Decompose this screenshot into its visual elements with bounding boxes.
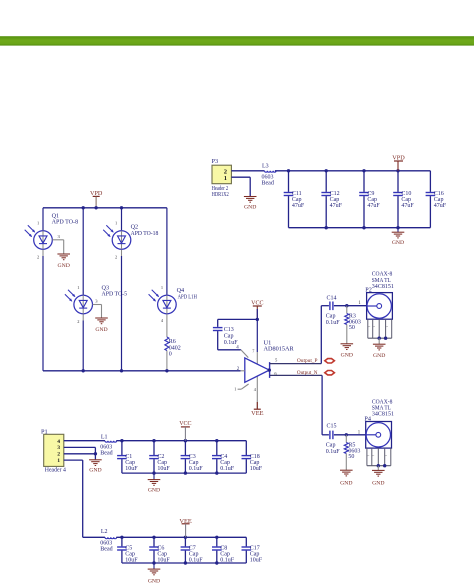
svg-text:2: 2 <box>57 452 60 458</box>
svg-text:47uF: 47uF <box>434 203 447 209</box>
svg-text:34C8151: 34C8151 <box>372 412 394 418</box>
svg-text:GND: GND <box>89 468 101 474</box>
capacitor C9 <box>359 171 380 228</box>
wire P3 pin1 to ground <box>231 177 250 196</box>
capacitor C18 <box>242 441 263 473</box>
net label Output_N <box>297 370 318 376</box>
svg-text:GND: GND <box>58 263 70 269</box>
svg-text:2: 2 <box>115 255 117 260</box>
svg-text:P3: P3 <box>212 158 219 165</box>
resistor R6 <box>165 337 181 358</box>
svg-text:APD TO-18: APD TO-18 <box>131 230 159 237</box>
pin1 stub <box>234 384 248 392</box>
svg-text:GND: GND <box>95 327 107 333</box>
wire pin2 stub <box>237 367 245 372</box>
port Output_P <box>325 359 335 363</box>
svg-text:GND: GND <box>341 353 353 359</box>
P2 shield pins <box>368 319 392 340</box>
svg-text:10uF: 10uF <box>157 466 170 472</box>
capacitor C12 <box>321 171 342 228</box>
wire C13 loop top <box>218 319 258 327</box>
wire Q1 column <box>42 208 44 371</box>
svg-text:47uF: 47uF <box>292 203 305 209</box>
ground at P1 <box>89 460 102 474</box>
svg-text:10uF: 10uF <box>250 466 263 472</box>
capacitor C2 <box>149 441 170 473</box>
svg-text:Header 4: Header 4 <box>45 468 66 474</box>
svg-text:2: 2 <box>37 255 39 260</box>
coax connector P2 <box>365 272 394 320</box>
power port VPD (left) <box>90 190 103 208</box>
svg-text:GND: GND <box>244 204 256 210</box>
svg-text:APD L1H: APD L1H <box>178 293 198 300</box>
svg-text:L3: L3 <box>262 164 269 170</box>
capacitor C1 <box>117 441 138 473</box>
svg-text:Cap: Cap <box>224 333 234 339</box>
photodiode Q2 <box>103 221 158 260</box>
svg-text:4: 4 <box>57 439 60 445</box>
svg-text:⌐: ⌐ <box>368 325 370 329</box>
junction dots on photodiode bus <box>82 206 124 209</box>
svg-text:VCC: VCC <box>251 299 263 306</box>
svg-text:VEE: VEE <box>251 410 263 417</box>
wire C14 to P2 pin1 <box>334 301 367 306</box>
svg-text:Cap: Cap <box>326 314 336 320</box>
svg-text:COAX-8: COAX-8 <box>372 399 393 405</box>
photodiode bus <box>43 207 167 209</box>
capacitor C11 <box>284 171 305 228</box>
ground below VCC bus <box>148 473 161 494</box>
junction dots on VCC rail <box>120 439 218 442</box>
svg-text:1: 1 <box>234 387 236 392</box>
power port VPD (top right) <box>392 154 405 171</box>
resistor R5 <box>344 435 360 470</box>
coax connector P4 <box>364 399 394 448</box>
capacitor C15 <box>326 424 341 455</box>
svg-text:1: 1 <box>57 458 60 464</box>
input wire to op-amp <box>43 370 241 372</box>
svg-text:C13: C13 <box>224 327 234 333</box>
wire Q2 column <box>121 208 123 371</box>
header green bar <box>0 36 474 45</box>
svg-text:⌐: ⌐ <box>386 325 388 329</box>
wire output N <box>270 371 323 376</box>
svg-text:0402: 0402 <box>169 345 181 351</box>
svg-text:VPD: VPD <box>90 190 103 197</box>
svg-text:HDR1X2: HDR1X2 <box>212 192 229 198</box>
capacitor C8 <box>212 537 235 563</box>
svg-text:1: 1 <box>224 175 227 182</box>
ground at Q1 <box>57 254 70 269</box>
svg-text:1: 1 <box>37 221 39 226</box>
capacitor C13 <box>213 327 238 346</box>
capacitor C16 <box>426 171 447 228</box>
junction dots on VEE rail <box>120 536 218 539</box>
svg-text:L1: L1 <box>101 435 108 441</box>
svg-text:SMA TL: SMA TL <box>372 278 391 284</box>
svg-text:Cap: Cap <box>326 443 336 449</box>
svg-text:GND: GND <box>373 353 385 359</box>
junction dots on VPD bus <box>287 169 400 172</box>
wire P1 pin3 pin2 to ground <box>64 447 97 459</box>
wire Q4 column <box>166 208 168 371</box>
svg-text:0: 0 <box>169 352 172 358</box>
op-amp U1 AD8015AR <box>245 340 295 393</box>
capacitor C17 <box>242 537 263 563</box>
svg-text:L2: L2 <box>101 529 108 535</box>
port Output_N <box>325 371 335 375</box>
ground below cap bank <box>392 228 405 246</box>
power port VCC (op-amp) <box>251 299 263 319</box>
ground at Q3 <box>95 318 108 333</box>
svg-text:47uF: 47uF <box>401 203 414 209</box>
junction dots on VEE bottom bus <box>152 561 218 564</box>
wire C15 to P4 pin1 <box>334 430 366 435</box>
wire C13 to pin4 <box>218 331 249 358</box>
svg-text:Bead: Bead <box>100 450 112 456</box>
capacitor C4 <box>212 441 235 473</box>
svg-text:47uF: 47uF <box>367 203 380 209</box>
connector P3 (Header 2) <box>212 158 232 198</box>
power port VEE (op-amp) <box>251 402 263 417</box>
capacitor C5 <box>117 537 138 563</box>
svg-text:0.1uF: 0.1uF <box>189 466 204 472</box>
svg-text:APD TO-5: APD TO-5 <box>102 291 128 298</box>
junction dots on VCC bottom bus <box>152 471 218 474</box>
VCC rail <box>116 440 246 442</box>
wire L3 to VPD bus <box>275 170 431 172</box>
VEE rail bottom bus <box>122 562 246 564</box>
op-amp output bar <box>268 362 271 378</box>
bottom bus of cap bank <box>289 227 431 229</box>
wire output P <box>270 358 322 364</box>
svg-text:GND: GND <box>392 240 404 246</box>
ground below R5 <box>340 470 353 486</box>
svg-text:APD TO-8: APD TO-8 <box>52 219 79 226</box>
svg-text:Bead: Bead <box>100 547 112 553</box>
wire P1 pin4 to L1 <box>64 440 105 442</box>
svg-text:COAX-8: COAX-8 <box>372 272 393 278</box>
svg-text:Bead: Bead <box>262 180 274 186</box>
svg-text:34C8151: 34C8151 <box>372 284 394 290</box>
svg-text:R6: R6 <box>169 339 176 345</box>
svg-text:10uF: 10uF <box>250 557 263 563</box>
svg-text:C14: C14 <box>327 296 337 302</box>
svg-text:C15: C15 <box>327 424 337 430</box>
capacitor C14 <box>326 296 341 326</box>
VEE rail <box>116 536 246 538</box>
svg-text:0.1uF: 0.1uF <box>326 449 341 455</box>
power port VEE (rail) <box>179 518 191 537</box>
svg-text:⌐: ⌐ <box>385 454 387 458</box>
svg-text:GND: GND <box>148 488 160 494</box>
junction dots on bottom bus <box>325 226 400 229</box>
ground below P3 <box>244 197 257 211</box>
junction dot C13 tap <box>256 318 259 321</box>
ferrite bead L1 <box>100 435 116 457</box>
svg-text:VCC: VCC <box>179 420 191 427</box>
svg-text:AD8015AR: AD8015AR <box>264 346 295 353</box>
svg-text:3: 3 <box>57 445 60 451</box>
connector P1 (Header 4) <box>41 428 66 473</box>
svg-text:GND: GND <box>372 481 384 487</box>
svg-text:0.1uF: 0.1uF <box>326 320 341 326</box>
svg-text:47uF: 47uF <box>330 203 343 209</box>
ferrite bead L3 <box>262 164 277 187</box>
capacitor C10 <box>393 171 414 228</box>
svg-text:⌐: ⌐ <box>373 325 375 329</box>
svg-text:1: 1 <box>115 221 117 226</box>
wire OutputP to C14 <box>321 306 329 364</box>
junction dots on input wire <box>82 369 169 372</box>
svg-text:GND: GND <box>148 578 160 583</box>
capacitor C7 <box>181 537 204 563</box>
svg-text:Output_P: Output_P <box>297 358 318 364</box>
junction dot R5 <box>345 433 348 436</box>
wire OutputN to C15 <box>322 375 329 434</box>
wire Q3 pin3 to ground <box>93 299 102 318</box>
photodiode Q1 <box>25 212 78 259</box>
wire VCC to op-amp <box>256 309 258 409</box>
svg-text:0603: 0603 <box>100 540 112 546</box>
ground below R3 <box>341 344 354 359</box>
resistor R3 <box>345 306 361 344</box>
photodiode Q4 <box>149 285 198 323</box>
ferrite bead L2 <box>100 529 116 553</box>
VCC rail bottom bus <box>122 472 246 474</box>
wire Q3 column <box>82 208 84 371</box>
svg-text:VPD: VPD <box>392 154 405 161</box>
power port VCC (rail) <box>179 420 191 441</box>
wire P3 pin2 to L3 <box>231 170 264 172</box>
capacitor C6 <box>149 537 170 563</box>
svg-text:50: 50 <box>348 454 354 460</box>
svg-text:2: 2 <box>77 319 79 324</box>
svg-text:1: 1 <box>77 285 79 290</box>
ground below P4 <box>372 466 385 487</box>
svg-text:⌐: ⌐ <box>368 454 370 458</box>
photodiode Q3 <box>65 284 127 324</box>
svg-text:GND: GND <box>340 481 352 487</box>
svg-text:Output_N: Output_N <box>297 370 318 376</box>
P4 shield pins <box>367 448 391 467</box>
wire Q1 pin3 to ground <box>52 234 63 254</box>
ground below VEE bus <box>148 563 161 584</box>
svg-text:10uF: 10uF <box>125 466 138 472</box>
net label Output_P <box>297 358 318 364</box>
svg-text:0.1uF: 0.1uF <box>220 466 235 472</box>
junction dot R3 <box>345 304 348 307</box>
svg-text:SMA TL: SMA TL <box>372 406 391 412</box>
svg-text:⌐: ⌐ <box>372 454 374 458</box>
ground below P2 <box>373 338 386 359</box>
wire P1 pin1 down <box>64 460 105 537</box>
svg-text:50: 50 <box>349 325 355 331</box>
svg-text:1: 1 <box>161 285 163 290</box>
capacitor C3 <box>181 441 204 473</box>
